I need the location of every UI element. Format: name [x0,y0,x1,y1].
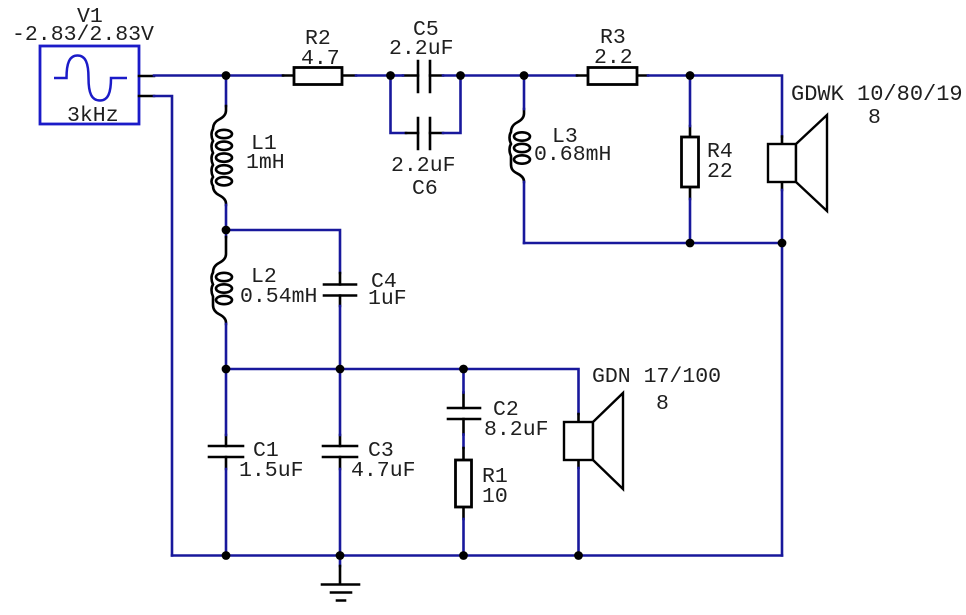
wire C4 down to node J [339,306,342,369]
wire R4 down to node F [689,199,692,243]
wire node I down to C1 [225,369,228,435]
junction bottom rail at GDN [574,551,583,560]
junction node B [386,71,395,80]
wire right side down [781,243,784,556]
svg-text:GDN 17/100: GDN 17/100 [592,365,721,389]
junction node A [222,71,231,80]
wire midwoofer rail I-J-K to speaker GDN [226,369,579,414]
junction node J [336,365,345,374]
svg-text:1mH: 1mH [246,151,285,175]
speaker GDWK 10/80/19 [768,115,827,211]
junction node K [459,365,468,374]
junction node C [456,71,465,80]
svg-text:1.5uF: 1.5uF [239,459,304,483]
capacitor C4 [324,273,356,306]
svg-text:2.2uF: 2.2uF [389,37,454,61]
inductor L1 [212,106,233,205]
resistor R3 [577,68,648,85]
wire L3 down to tweeter bottom rail [523,182,526,243]
svg-text:-2.83/2.83V: -2.83/2.83V [12,23,154,47]
junction node E [686,71,695,80]
svg-text:8: 8 [868,106,881,130]
wire R3 to node E [648,74,690,77]
wire node B down to C6 [391,76,407,134]
wire C2 to R1 [462,435,465,449]
junction node F [686,239,695,248]
wire C6 to node C [443,76,461,134]
junction bottom rail at ground [336,551,345,560]
wire V1 plus to node A [154,74,226,77]
junction bottom rail at C1 [222,551,231,560]
ground [322,556,359,601]
wire C1 down to bottom rail [225,469,228,556]
wire node B to C5 [391,74,404,77]
svg-text:2.2uF: 2.2uF [391,154,456,178]
resistor R1 [456,448,472,519]
capacitor C1 [209,435,243,469]
wire L2 down to node I [225,324,228,369]
wire node C to node D [461,74,525,77]
wire R2 to node B [356,74,391,77]
svg-text:1uF: 1uF [368,287,407,311]
resistor R4 [682,126,699,199]
wire node H to C4 column [226,230,340,273]
capacitor C3 [323,435,357,469]
wire node E down to R4 [689,76,692,127]
wire node H down to L2 [225,230,228,237]
speaker GDN 17/100 [564,393,623,489]
svg-text:4.7: 4.7 [301,47,340,71]
wire node E to top right corner down to speaker [690,76,782,137]
svg-text:0.54mH: 0.54mH [240,285,317,309]
wire node A to R2 [226,74,283,77]
wire C3 down to bottom rail [339,469,342,556]
capacitor C5 [403,61,443,92]
inductor L3 [510,109,531,182]
wire bottom rail [172,554,782,557]
wire node K down to C2 [462,369,465,393]
capacitor C6 [406,118,443,149]
wire node A down to L1 [225,76,228,107]
inductor L2 [212,237,233,324]
wire speaker GDN down to bottom rail [577,468,580,556]
svg-text:0.68mH: 0.68mH [534,143,611,167]
capacitor C2 [448,393,480,435]
wire node D to R3 [524,74,577,77]
junction bottom rail at R1 [459,551,468,560]
svg-text:GDWK 10/80/19: GDWK 10/80/19 [791,82,963,107]
resistor R2 [283,68,356,85]
svg-text:4.7uF: 4.7uF [351,459,416,483]
svg-text:8: 8 [656,392,669,416]
wire tweeter bottom rail [524,242,782,245]
wire node J down to C3 [339,369,342,435]
wire R1 down to bottom rail [462,519,465,556]
wire node D down to L3 [523,76,526,110]
svg-text:8.2uF: 8.2uF [484,418,549,442]
wire speaker GDWK down to node G [781,190,784,243]
voltage source V1 [40,46,154,124]
svg-text:3kHz: 3kHz [67,104,119,128]
wire C5 to node C [443,74,461,77]
junction node I [222,365,231,374]
svg-text:2.2: 2.2 [594,46,633,70]
junction node D [520,71,529,80]
svg-text:22: 22 [707,160,733,184]
svg-text:10: 10 [482,485,508,509]
wire V1 minus run left side [154,96,172,556]
junction node G [778,239,787,248]
junction node H [222,226,231,235]
svg-text:C6: C6 [412,177,438,201]
wire L1 to node H [225,205,228,230]
